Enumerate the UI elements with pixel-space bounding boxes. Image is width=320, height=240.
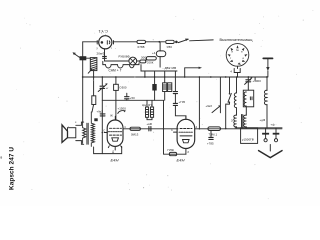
switch S2	[225, 77, 231, 129]
resistor box R4	[92, 77, 96, 112]
barretter / dropper R on stem	[156, 42, 166, 67]
capacitor vF coupling	[149, 127, 151, 131]
svg-text:Kapsch 247 U: Kapsch 247 U	[9, 147, 16, 190]
wire top line segment	[146, 41, 165, 43]
switch S1	[176, 39, 189, 43]
wire heater sub-bus	[141, 65, 177, 71]
lamp LP1	[105, 57, 137, 65]
inductor L8	[242, 115, 247, 128]
svg-text:20мФ: 20мФ	[97, 52, 106, 56]
svg-text:Выключательмшц: Выключательмшц	[220, 38, 253, 42]
svg-text:Е4Н: Е4Н	[177, 158, 185, 163]
meter M1 dial	[226, 44, 249, 77]
potentiometer P1	[212, 77, 221, 113]
resistor R2	[166, 40, 175, 43]
capacitor +50 electrolytic	[125, 93, 129, 100]
capacitor antenna series (black box)	[80, 56, 87, 60]
svg-text:+дФ: +дФ	[260, 118, 266, 122]
transformer T1 output	[81, 112, 94, 146]
wire anode line B	[195, 128, 282, 130]
junction dots on bus	[82, 76, 268, 78]
scan noise specks	[11, 10, 313, 199]
svg-text:- ДВ2 МВ: - ДВ2 МВ	[163, 66, 177, 70]
label 1500 arc arrow	[118, 110, 126, 114]
resistor pill B	[146, 57, 157, 62]
capacitor trimmer C5	[98, 77, 107, 154]
wire left rail	[82, 42, 84, 123]
wire anode line A	[123, 128, 178, 130]
capacitor black box C4	[152, 71, 156, 100]
wire box to coil	[86, 57, 90, 59]
capacitor on x175	[173, 71, 177, 103]
tube U1 rectifier CY1	[97, 36, 113, 49]
mains plug arrow	[259, 145, 282, 158]
capacitor 20uF electrolytic	[103, 56, 107, 58]
capacitor 785	[209, 131, 213, 140]
junction dot grid	[102, 132, 104, 134]
shielded capacitor box	[241, 128, 258, 144]
svg-text:ТЛМ.1: ТЛМ.1	[209, 133, 218, 137]
svg-text:+Г05: +Г05	[179, 100, 186, 104]
wire bottom right rail	[235, 127, 282, 129]
resistor box 300ohm	[146, 100, 149, 117]
resistor R3	[137, 60, 146, 63]
svg-text:З: З	[231, 119, 233, 123]
tube V1 pin ticks	[108, 146, 121, 148]
inductor L7	[234, 115, 237, 128]
svg-text:+50: +50	[130, 96, 135, 100]
inductor L4	[234, 77, 236, 115]
antenna A1	[73, 52, 80, 57]
wire cathode bottom	[94, 147, 122, 154]
svg-text:+1500: +1500	[118, 107, 127, 111]
svg-text:+ф: +ф	[271, 123, 276, 127]
svg-text:С: С	[171, 128, 173, 132]
resistor R5 0M13	[130, 127, 140, 130]
wire V2 cathode bottom	[164, 100, 186, 154]
svg-text:у1500ГФ: у1500ГФ	[242, 137, 254, 141]
wire mid horizontal y100	[102, 99, 163, 101]
wire stub x255	[254, 77, 256, 81]
capacitor N2	[100, 114, 105, 116]
capacitor small dark	[94, 118, 97, 121]
svg-text:+785: +785	[207, 142, 214, 146]
wire top line left segment	[83, 41, 98, 43]
svg-text:+г: +г	[106, 86, 109, 90]
resistor box 10W a	[163, 71, 167, 100]
capacitor variable C6	[245, 77, 253, 90]
inductor L2 antenna coil	[88, 58, 97, 74]
svg-text:З00: З00	[141, 56, 146, 60]
inductor L6 right	[264, 77, 267, 128]
svg-text:№: №	[236, 49, 239, 52]
svg-text:0788: 0788	[138, 45, 145, 49]
wire tube1 cathode down	[104, 49, 106, 61]
node barretter tap	[158, 41, 160, 43]
svg-text:Е4Н: Е4Н	[111, 158, 119, 163]
wire coil to bus	[93, 71, 95, 77]
svg-text:C.Y.1: C.Y.1	[98, 29, 108, 33]
svg-text:С: С	[103, 128, 105, 132]
svg-text:+вФ: +вФ	[147, 122, 153, 126]
wire top line mid segment	[114, 41, 138, 43]
inductor L3 tuning coil	[103, 61, 139, 68]
svg-text:РУБ08Ф: РУБ08Ф	[119, 55, 130, 59]
svg-text:ООЖ: ООЖ	[147, 61, 154, 65]
svg-text:+№б: +№б	[206, 104, 213, 108]
svg-text:+4000: +4000	[253, 79, 262, 83]
svg-text:в: в	[1, 156, 3, 160]
svg-text:У80: У80	[167, 45, 173, 49]
antenna A2 right	[263, 58, 272, 77]
svg-text:О300: О300	[119, 86, 127, 90]
capacitor C8 mains b	[273, 128, 280, 142]
wire arrow to dial	[185, 67, 202, 77]
svg-text:САМ + Г: САМ + Г	[109, 69, 122, 73]
bus main horizontal	[83, 76, 268, 78]
capacitor G05	[173, 103, 186, 119]
svg-text:0М13: 0М13	[131, 132, 139, 136]
speaker SP1	[62, 122, 81, 142]
svg-text:Д: Д	[112, 150, 114, 154]
resistor box 10W b	[168, 83, 172, 92]
wire plate rail x199	[198, 77, 200, 129]
svg-text:+№2: +№2	[97, 110, 104, 114]
tube V2 output	[174, 116, 195, 154]
svg-text:Ж: Ж	[110, 114, 113, 118]
svg-text:ПЛЖ: ПЛЖ	[168, 148, 175, 152]
tube V1 output pentode	[104, 116, 123, 150]
inductor L5 oscillator boxed	[243, 90, 253, 115]
capacitor C300 box	[114, 77, 119, 120]
svg-text:+4: +4	[152, 51, 156, 55]
resistor R7 TLM1	[208, 127, 221, 131]
wire vertical x144.9	[144, 71, 146, 77]
wire top line right segment	[190, 39, 214, 42]
resistor R6 cathode	[169, 152, 176, 155]
resistor R1	[137, 40, 146, 43]
resistor box C2V	[147, 100, 154, 119]
capacitor C7 mains a	[262, 128, 269, 142]
